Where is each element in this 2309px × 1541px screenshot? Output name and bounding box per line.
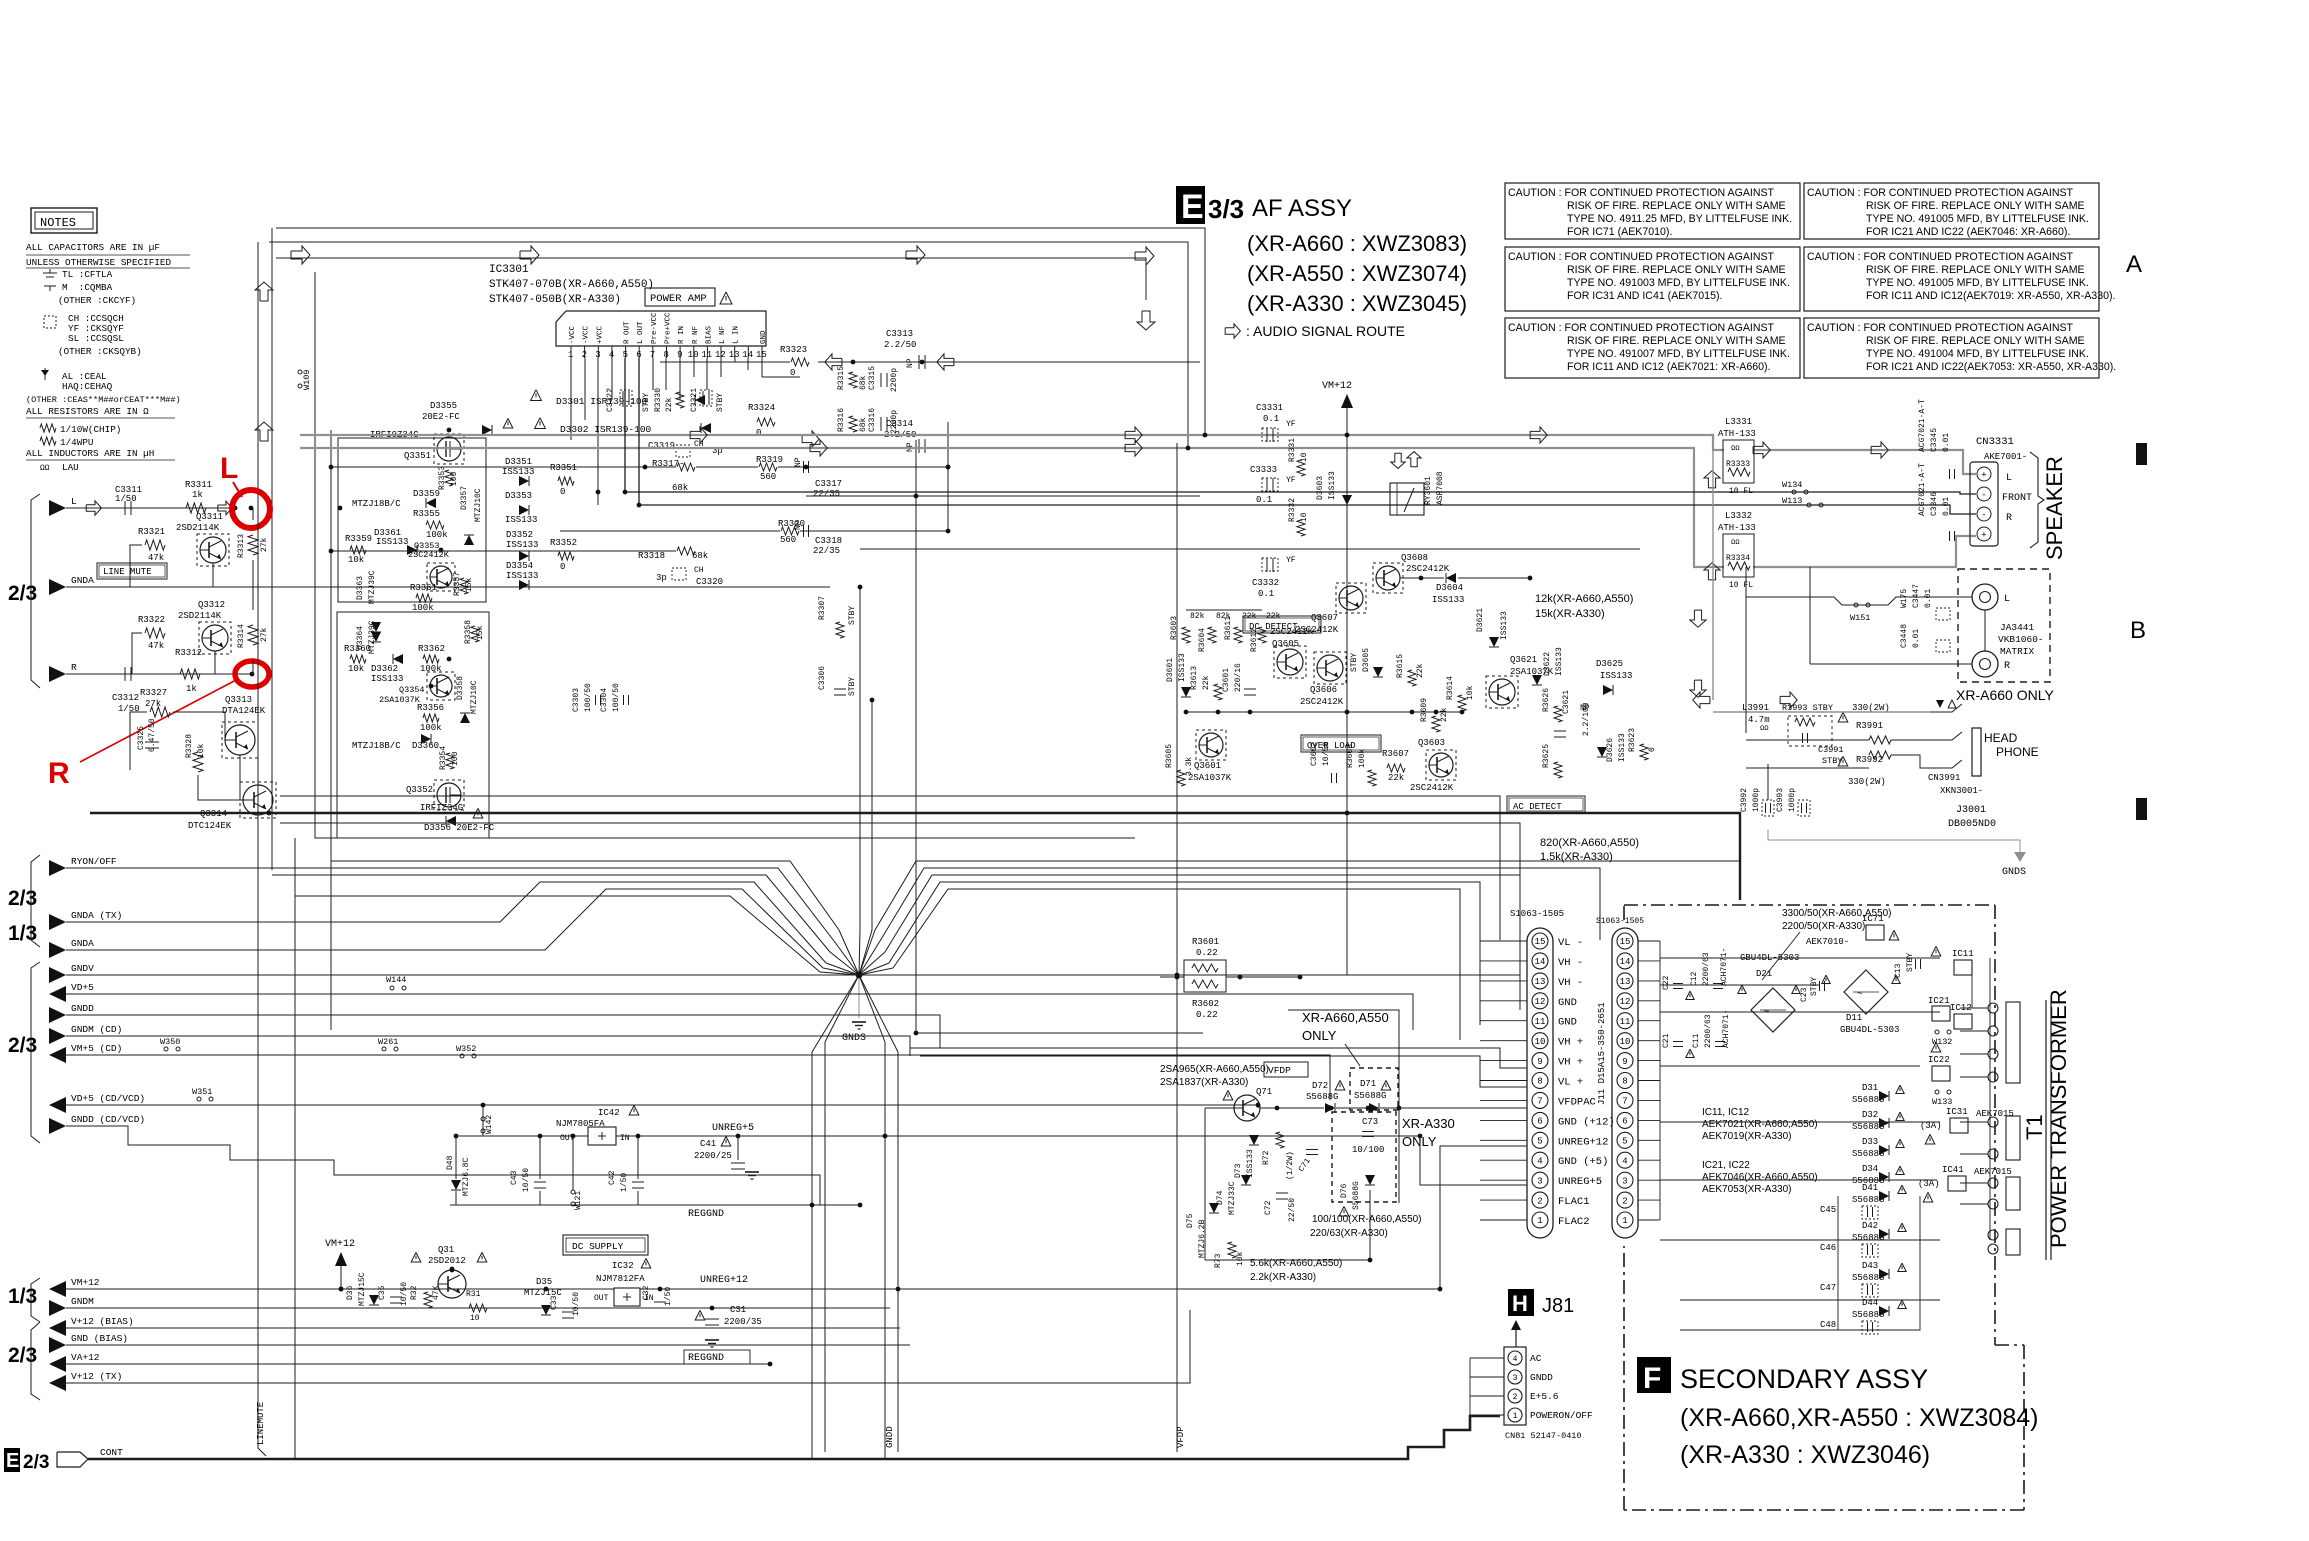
input terminal GND (BIAS) [49,1337,66,1353]
wire gndd2 [66,1015,940,1048]
line mute box [97,563,167,579]
svg-text:R IN: R IN [678,326,686,344]
svg-text:22/35: 22/35 [813,489,840,499]
transistor Q31 [438,1270,466,1298]
svg-text:C3333: C3333 [1250,465,1277,475]
arrow up l3331 [1704,471,1720,488]
svg-text:4.7m: 4.7m [1748,715,1770,725]
svg-text:B: B [2130,617,2146,644]
svg-text:0.1: 0.1 [1258,589,1274,599]
arrow feedback2 [937,354,954,370]
svg-text:C3602: C3602 [1310,742,1319,766]
svg-text:2SD2114K: 2SD2114K [178,611,222,621]
svg-text:VM+12: VM+12 [71,1277,100,1288]
dc supply box [563,1235,648,1255]
svg-text:NP: NP [794,457,803,467]
svg-text:YF: YF [1286,476,1296,485]
resistor R3313 [248,535,258,555]
svg-text:2SD2012: 2SD2012 [428,1256,466,1266]
svg-text:H: H [1512,1291,1528,1316]
svg-text:TL :CFTLA: TL :CFTLA [62,269,113,280]
power amp label box [645,288,715,306]
svg-text:R73: R73 [1214,1253,1223,1268]
wire vm12 line [66,1288,614,1290]
svg-text:A: A [2126,251,2142,278]
svg-text:VH -: VH - [1558,977,1583,989]
svg-text:DTC124EK: DTC124EK [188,821,232,831]
svg-text:10/50: 10/50 [572,1292,581,1316]
svg-text:IC31: IC31 [1946,1107,1968,1117]
svg-text:ISS133: ISS133 [371,674,403,684]
svg-text:C3306: C3306 [818,666,827,690]
brace e [31,1322,40,1400]
wire top bus 2 [269,242,1188,448]
svg-text:15: 15 [756,350,767,360]
svg-text:C42: C42 [608,1170,617,1185]
svg-text:2/3: 2/3 [8,1034,37,1057]
connector S1063 right [1612,928,1638,1238]
svg-text:AEK7053(XR-A330): AEK7053(XR-A330) [1702,1184,1792,1195]
wire connector feeds [1480,940,1527,942]
svg-text:1/4WPU: 1/4WPU [60,437,93,448]
svg-text:AEK7015: AEK7015 [1976,1109,2014,1119]
svg-text:C3332: C3332 [1252,578,1279,588]
cn3331 pin +L [1977,467,1991,481]
svg-text:D3357: D3357 [460,486,469,510]
capacitor C3311 [124,501,126,515]
arrow gray 1 [690,427,707,443]
transistor Q3608 [1376,566,1400,590]
red circle R [235,661,269,687]
wire c41 gnd [737,1136,739,1160]
cn3331 pin -L [1977,487,1991,501]
pin 2 IC3301 [584,346,586,358]
resistor R3361 [416,594,432,602]
svg-text:RISK OF FIRE. REPLACE ONLY WIT: RISK OF FIRE. REPLACE ONLY WITH SAME [1866,335,2085,347]
svg-text:100k: 100k [1358,749,1367,768]
svg-text:R3626: R3626 [1542,688,1551,712]
svg-text:MTZJ39C: MTZJ39C [368,570,377,604]
input terminal GNDA [49,942,66,958]
svg-text:220/63(XR-A330): 220/63(XR-A330) [1310,1228,1388,1239]
svg-text:AEK7010-: AEK7010- [1806,937,1849,947]
svg-text:V+12 (BIAS): V+12 (BIAS) [71,1316,134,1327]
svg-text:GND (BIAS): GND (BIAS) [71,1333,128,1344]
svg-text:ISS133: ISS133 [506,540,538,550]
svg-text:R3601: R3601 [1192,937,1219,947]
svg-text:ISS133: ISS133 [1500,611,1509,640]
svg-text:(OTHER :CEAS**M##orCEAT***M##): (OTHER :CEAS**M##orCEAT***M##) [26,395,181,405]
svg-text:R3331: R3331 [1288,438,1297,462]
resistor R3322 [145,628,165,638]
svg-text:ISS133: ISS133 [1432,595,1464,605]
input terminal GNDM [49,1300,66,1316]
capacitor C3312 [124,667,126,681]
wire gndbias [66,1344,910,1346]
svg-text:CAUTION : FOR CONTINUED PROTEC: CAUTION : FOR CONTINUED PROTECTION AGAIN… [1508,251,1775,263]
svg-text:MTZJ33C: MTZJ33C [1228,1181,1237,1215]
svg-text:VM+5 (CD): VM+5 (CD) [71,1043,122,1054]
svg-text:STBY: STBY [716,393,725,412]
resistor R3993 [1788,716,1832,746]
notes box [31,208,97,233]
svg-text:R3318: R3318 [638,551,665,561]
ground GNDS [852,1021,866,1023]
arrow up l3332 [1704,563,1720,580]
svg-text:C3319: C3319 [648,441,675,451]
j81 arrow [1515,1328,1517,1347]
svg-text:W121: W121 [574,1191,583,1210]
svg-text:-VCC: -VCC [583,325,591,344]
connector J81 [1504,1347,1526,1425]
svg-text:GBU4DL-5303: GBU4DL-5303 [1840,1025,1899,1035]
svg-text:R3353: R3353 [438,466,447,490]
resistor R3328 [193,752,203,772]
svg-text:R3605: R3605 [1165,744,1174,768]
wire bus R4 [889,882,1480,1025]
svg-text:R3328: R3328 [185,734,194,758]
red circle L [232,490,270,528]
svg-text:14: 14 [1535,957,1546,967]
svg-text:D3359: D3359 [413,489,440,499]
svg-text:10: 10 [1300,452,1309,462]
svg-text:STK407-050B(XR-A330): STK407-050B(XR-A330) [489,294,621,306]
svg-text:15: 15 [1535,937,1546,947]
svg-text:MTZJ18B/C: MTZJ18B/C [352,499,401,509]
svg-text:S5688G: S5688G [1354,1091,1386,1101]
svg-text:22k: 22k [665,397,674,412]
svg-text:UNREG+5: UNREG+5 [712,1123,754,1134]
svg-text:W113: W113 [1782,496,1802,506]
svg-text:XR-A330: XR-A330 [1402,1116,1455,1131]
wire audio R gray [300,448,1724,567]
svg-text:2/3: 2/3 [23,1452,49,1473]
svg-text:3: 3 [1537,1176,1542,1186]
svg-text:12: 12 [1620,997,1631,1007]
svg-text:R32: R32 [410,1285,419,1300]
transistor Q3601 [1199,733,1223,757]
svg-text:MTZJ18B/C: MTZJ18B/C [352,741,401,751]
node GNDS [856,972,863,979]
resistor R3351 [558,477,574,485]
arrow gray 4 [1753,442,1770,458]
arrow mid [802,431,819,447]
svg-text:C72: C72 [1264,1200,1273,1215]
cap symbol CH [44,316,56,328]
marker H [1508,1289,1534,1316]
svg-text:D43: D43 [1862,1261,1878,1271]
svg-text:L: L [220,452,238,485]
svg-text:D44: D44 [1862,1298,1878,1308]
jumper W261 [382,1047,386,1051]
svg-text:C3317: C3317 [815,479,842,489]
wire secondary bus [1638,940,1660,942]
warn triangle amp [720,292,732,304]
svg-text:GND: GND [1558,997,1577,1009]
svg-text:D35: D35 [536,1277,552,1287]
arrow L in [86,501,101,515]
svg-text:0.1: 0.1 [1263,414,1279,424]
svg-text:13: 13 [1620,977,1631,987]
svg-text:Q3605: Q3605 [1272,639,1299,649]
wire matrix L feed [1746,597,1972,605]
svg-text:-VCC: -VCC [569,325,577,344]
svg-text:CAUTION : FOR CONTINUED PROTEC: CAUTION : FOR CONTINUED PROTECTION AGAIN… [1508,187,1775,199]
svg-text:S1063-1505: S1063-1505 [1596,917,1644,926]
svg-text:220/16: 220/16 [1234,663,1243,692]
j81 pin 4 AC [1508,1351,1522,1365]
svg-text:VL -: VL - [1558,937,1583,949]
svg-text:3: 3 [1622,1176,1627,1186]
wire sec h1 [1660,957,1940,959]
svg-text:C3303: C3303 [572,688,581,712]
svg-text:GNDM (CD): GNDM (CD) [71,1024,122,1035]
arrow down mid [1137,311,1155,330]
svg-text:IC41: IC41 [1942,1165,1964,1175]
svg-text:R NF: R NF [692,326,700,344]
wire r3318 line [331,550,676,552]
svg-text:3/3: 3/3 [1208,194,1244,224]
wire left vert 2 [257,242,259,508]
amp outer box [315,272,1135,838]
wire q71 line [1205,1107,1234,1109]
wire audio R gray2 [1753,536,1976,567]
wire only arrow [1345,1044,1360,1066]
svg-text:15k: 15k [476,625,485,640]
wire bus L5 GNDA [66,889,823,968]
svg-text:VH -: VH - [1558,957,1583,969]
svg-text:Q3311: Q3311 [196,512,223,522]
marker F [1637,1357,1671,1393]
vfdp box [1264,1062,1308,1077]
wire detect h [1186,609,1262,611]
svg-text:15k(XR-A330): 15k(XR-A330) [1535,608,1605,620]
pin 11 IC3301 [706,346,708,358]
wire CONT thick [88,1416,1500,1459]
svg-text:0.01: 0.01 [1942,497,1951,516]
jumper W113 [1807,503,1811,507]
svg-text:FOR IC21 AND IC22 (AEK7046: XR: FOR IC21 AND IC22 (AEK7046: XR-A660). [1866,226,2070,238]
svg-text:0.01: 0.01 [1912,629,1921,648]
svg-text:D3352: D3352 [506,530,533,540]
svg-text:LINE MUTE: LINE MUTE [103,567,152,577]
svg-text:2: 2 [582,350,587,360]
pin 4 IC3301 [611,346,613,358]
svg-text:CONT: CONT [100,1447,123,1458]
svg-text:3p: 3p [656,573,667,583]
svg-text:STK407-070B(XR-A660,A550): STK407-070B(XR-A660,A550) [489,279,654,291]
svg-text:Q3354: Q3354 [399,685,425,695]
svg-text:ISS133: ISS133 [1555,647,1564,676]
svg-text:2200/63: 2200/63 [1704,1014,1713,1048]
wire matrix feeds v [1745,567,1747,597]
svg-text:1k: 1k [186,684,197,694]
svg-text:R3604: R3604 [1198,628,1207,652]
svg-text:2/3: 2/3 [8,887,37,910]
svg-text:R: R [2004,661,2010,672]
wire driver junctions [338,506,343,511]
wire vert x860 [859,587,861,930]
svg-text:2SC2412K: 2SC2412K [1410,783,1454,793]
resistor R3327 [150,707,170,717]
svg-text:MATRIX: MATRIX [2000,646,2035,657]
svg-text:2: 2 [1622,1196,1627,1206]
svg-text:CN3331: CN3331 [1976,436,2014,448]
svg-text:R3354: R3354 [439,746,448,770]
svg-text:R3315: R3315 [837,366,846,390]
svg-text:IC32: IC32 [612,1261,634,1271]
svg-text:2200/25: 2200/25 [694,1151,732,1161]
svg-text:PHONE: PHONE [1996,745,2039,759]
caution box 1 [1505,183,1800,239]
svg-text:NP: NP [906,358,915,368]
jumper W109 [298,370,302,374]
svg-text:R3355: R3355 [413,509,440,519]
svg-text:R3357: R3357 [453,572,462,596]
diode D71 [1350,1068,1398,1110]
svg-text:GND: GND [1558,1017,1577,1029]
svg-text:STBY: STBY [1350,653,1359,672]
svg-text:0.47/50: 0.47/50 [148,718,157,752]
svg-text:LAU: LAU [62,462,79,473]
svg-text:STBY: STBY [1906,953,1915,972]
transistor Q3311 [200,537,226,563]
svg-text:47K: 47K [432,1285,441,1300]
svg-text:L NF: L NF [719,326,727,344]
wire vert x331 [330,430,332,1030]
capacitor C3325 [145,741,159,743]
svg-text:C13: C13 [1894,963,1903,978]
svg-text:C46: C46 [1820,1243,1836,1253]
transistor Q3354 [430,675,452,697]
svg-text:100k: 100k [420,723,442,733]
caution box 5 [1505,318,1800,378]
pin 5 IC3301 [625,346,627,358]
svg-text:D72: D72 [1312,1081,1328,1091]
resistor R3321 [145,540,165,550]
svg-text:L: L [2006,473,2012,484]
svg-text:0.01: 0.01 [1942,433,1951,452]
wire L input [66,507,235,509]
arrow up relay [1407,452,1421,467]
svg-text:4: 4 [1622,1156,1627,1166]
vm12 mid arrow [335,1252,347,1266]
svg-text:ISS133: ISS133 [1600,671,1632,681]
svg-text:C41: C41 [700,1139,716,1149]
wire speaker feed2 [639,358,1976,514]
svg-text:R3327: R3327 [140,688,167,698]
wire R input [66,673,252,675]
wire gndm2 [66,1307,890,1309]
svg-text:D3351: D3351 [505,457,532,467]
svg-text:R3314: R3314 [237,624,246,648]
wire q71 left [1204,1108,1206,1260]
cont terminal [57,1452,88,1467]
svg-text:R3333: R3333 [1726,460,1750,469]
svg-text:D31: D31 [1862,1083,1878,1093]
svg-text:0.22: 0.22 [1196,1010,1218,1020]
wire bus R5 [893,889,1460,1040]
svg-text:1/3: 1/3 [8,1285,37,1308]
svg-text:Q3601: Q3601 [1194,761,1221,771]
svg-text:3300/50(XR-A660,A550): 3300/50(XR-A660,A550) [1782,908,1892,919]
svg-text:FOR IC11 AND IC12 (AEK7021: XR: FOR IC11 AND IC12 (AEK7021: XR-A660). [1567,361,1771,373]
wire bus 823 [280,823,1520,900]
jumper W151 [1854,603,1858,607]
svg-text:S5688G: S5688G [1352,1181,1361,1210]
matrix dashed box [1958,569,2050,682]
svg-text:C3331: C3331 [1256,403,1283,413]
svg-text:SECONDARY ASSY: SECONDARY ASSY [1680,1364,1928,1394]
svg-text:(XR-A550 : XWZ3074): (XR-A550 : XWZ3074) [1247,261,1467,286]
svg-text:22k: 22k [1388,773,1404,783]
jumper W351 [197,1097,201,1101]
svg-text:CAUTION : FOR CONTINUED PROTEC: CAUTION : FOR CONTINUED PROTECTION AGAIN… [1807,322,2074,334]
svg-text:C3313: C3313 [886,329,913,339]
wire vert x948 [947,422,949,531]
svg-text:C12: C12 [1690,971,1699,986]
resistor R3312 [180,669,200,679]
jumper W352 [460,1054,464,1058]
ac detect box [1507,796,1585,813]
wire v12tx [66,1310,1190,1383]
svg-text:R31: R31 [466,1290,481,1299]
svg-text:BIAS: BIAS [705,325,713,344]
svg-text:100k: 100k [426,530,448,540]
driver block box 2 [337,612,489,838]
title E box [1176,186,1205,224]
svg-text:C3316: C3316 [868,408,877,432]
svg-text:ASR7008: ASR7008 [1436,471,1445,505]
transistor Q3621 [1489,679,1515,705]
svg-text:ALL CAPACITORS ARE IN µF: ALL CAPACITORS ARE IN µF [26,242,160,253]
pin 6 IC3301 [638,346,640,358]
svg-text:D75: D75 [1186,1213,1195,1228]
svg-text:NP: NP [794,520,803,530]
wire top bus 3 [276,258,1146,300]
svg-text:VD+5 (CD/VCD): VD+5 (CD/VCD) [71,1093,145,1104]
svg-text:C21: C21 [1662,1033,1671,1048]
wire hp lines [1713,711,1930,713]
svg-text:7: 7 [1537,1097,1542,1107]
svg-text:VM+12: VM+12 [325,1239,355,1250]
svg-text:ATH-133: ATH-133 [1718,523,1756,533]
warn hp2 [1838,756,1848,766]
edge marker 1 [2136,443,2147,465]
wire va12 [66,1363,770,1365]
svg-text:FOR IC31 AND IC41 (AEK7015).: FOR IC31 AND IC41 (AEK7015). [1567,290,1722,302]
svg-text:1: 1 [1537,1216,1542,1226]
svg-text:ISS133: ISS133 [376,537,408,547]
matrix jack R [1972,651,1998,677]
arrow feedback [825,354,842,370]
svg-text:D3604: D3604 [1436,583,1463,593]
svg-text:ALL INDUCTORS ARE IN µH: ALL INDUCTORS ARE IN µH [26,448,154,459]
svg-text:FOR IC21 AND IC22(AEK7053: XR-: FOR IC21 AND IC22(AEK7053: XR-A550, XR-A… [1866,361,2116,373]
pin 15 IC3301 [761,346,763,358]
svg-text:2SC2412K: 2SC2412K [1270,627,1314,637]
red line R [80,679,238,762]
resistor R3362 [423,655,439,663]
svg-text:22/50: 22/50 [1288,1198,1297,1222]
svg-text:D3301 ISR139-100: D3301 ISR139-100 [556,396,648,407]
svg-text:R72: R72 [1262,1150,1271,1165]
svg-text:RISK OF FIRE. REPLACE ONLY WIT: RISK OF FIRE. REPLACE ONLY WITH SAME [1866,200,2085,212]
wire bus L2 RYON [66,868,834,941]
svg-text:IC11: IC11 [1952,949,1974,959]
svg-text:C31: C31 [730,1305,746,1315]
svg-text:20E2-FC: 20E2-FC [422,412,460,422]
